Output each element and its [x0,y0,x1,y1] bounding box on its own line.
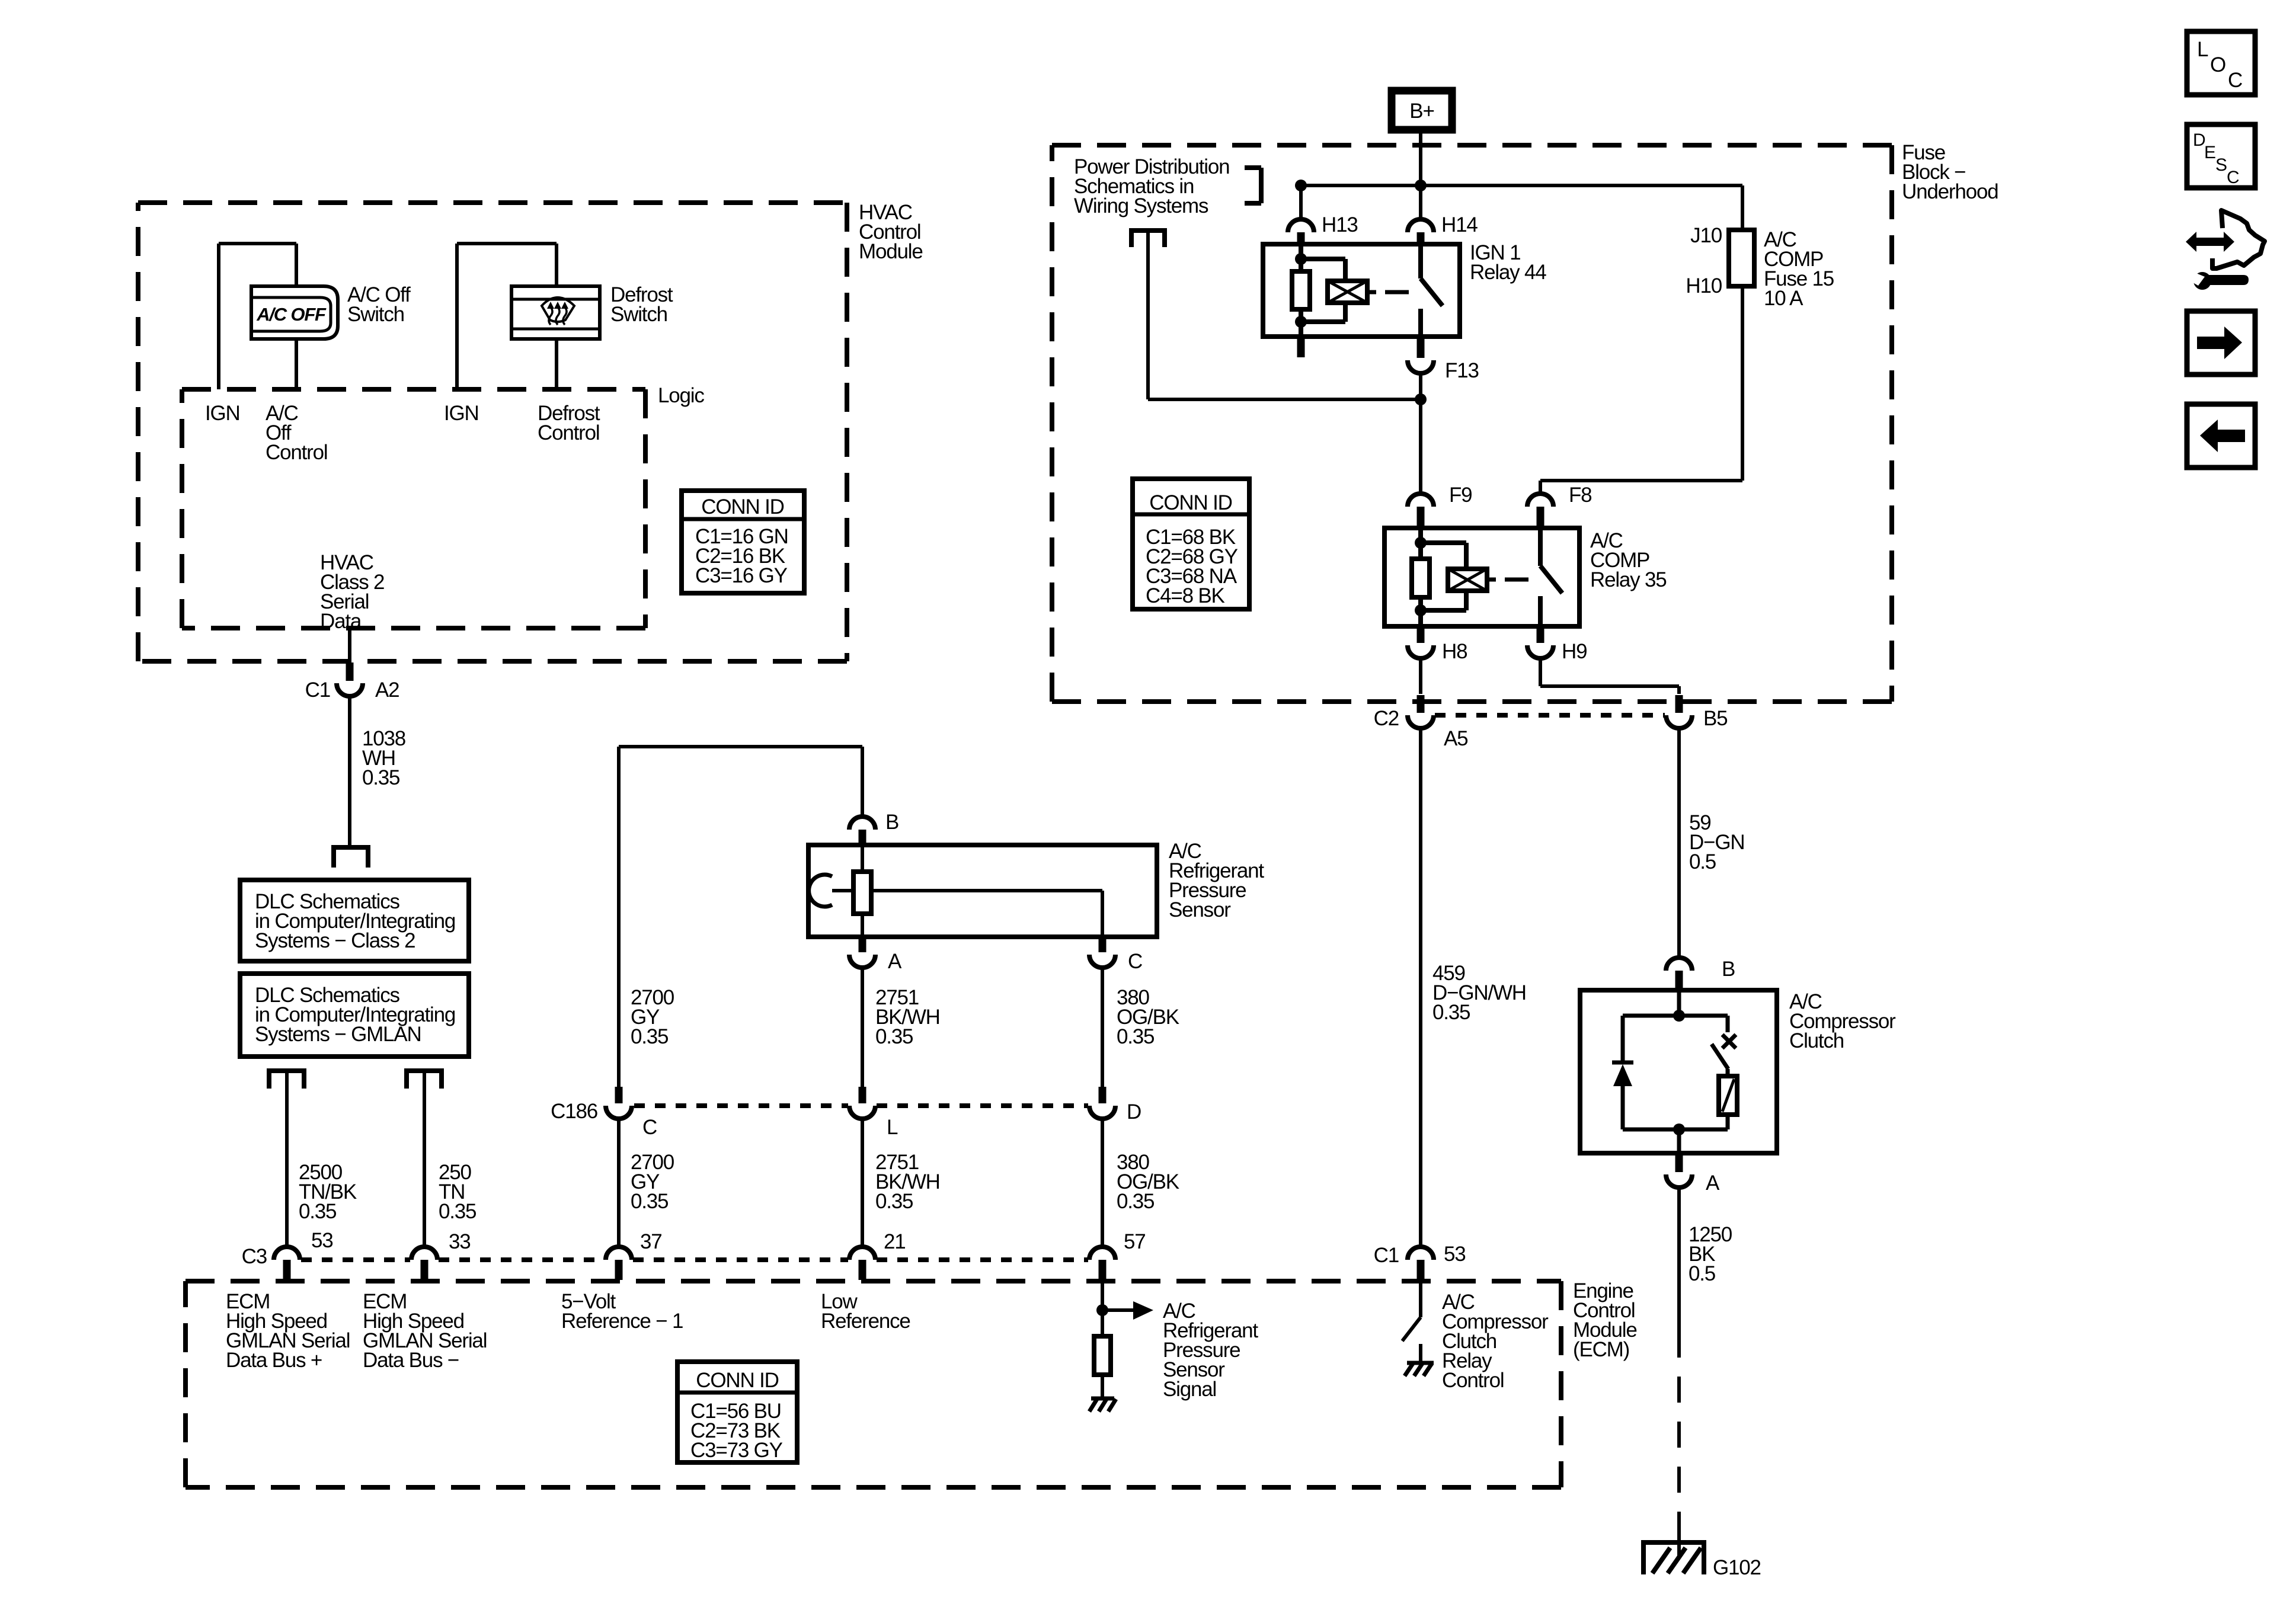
connector pin D [1089,1087,1141,1124]
wire fuse to F8 [1540,286,1742,494]
svg-text:A: A [888,950,902,973]
svg-text:33: 33 [449,1230,471,1253]
relay A/C COMP Relay 35 box [1384,528,1579,626]
wire F13 to F9 [1419,373,1422,494]
ECM box [186,1281,1561,1487]
wire 380 OG/BK lower [1101,1119,1104,1247]
wire HVAC Class 2 serial data [348,628,351,661]
wire 2751 BK/WH lower [861,1119,864,1247]
svg-text:H9: H9 [1562,640,1587,663]
relay44 switch pin to F13 [1417,337,1425,358]
svg-text:F9: F9 [1449,484,1472,507]
bracket power distribution wire [1129,231,1167,247]
A/C Refrigerant Pressure Sensor box [808,845,1157,937]
CONN ID table (fuse block) [1133,479,1249,609]
relay44 coil branch [1292,247,1376,337]
svg-text:S: S [2215,155,2227,175]
svg-text:CONN ID: CONN ID [696,1369,778,1392]
junction B+ bus main [1415,180,1427,191]
svg-text:F13: F13 [1445,359,1479,382]
DLC Schematics box (Class 2) [240,880,469,961]
icon schematic reference (arrow and wrench) [2186,210,2265,290]
switch Defrost Switch [511,286,600,339]
svg-text:H13: H13 [1322,213,1358,236]
svg-text:C: C [2227,168,2239,187]
off-page bracket to DLC [331,847,370,868]
thermal switch and thermistor (clutch) [1712,1016,1737,1129]
svg-text:53: 53 [311,1229,333,1252]
wire sensor signal inside ECM [1101,1280,1104,1336]
svg-text:B: B [885,811,898,834]
svg-text:C: C [1128,950,1142,973]
svg-text:C1=68 BKC2=68 GYC3=68 NAC4=8 B: C1=68 BKC2=68 GYC3=68 NAC4=8 BK [1146,526,1238,607]
svg-text:Logic: Logic [658,384,704,407]
svg-text:H14: H14 [1441,213,1478,236]
junction B+ bus left [1295,180,1307,191]
DLC Schematics box (GMLAN) [240,974,469,1057]
C186 connector row dotted line [634,1103,1088,1108]
relay IGN 1 Relay 44 box [1263,244,1460,337]
connector C3 pin 53 [242,1229,333,1280]
connector C1/A2 [305,662,399,702]
wire to ground [1101,1375,1104,1398]
connector C2 pin A5 [1374,695,1468,750]
wire IGN to Defrost switch [457,244,557,389]
svg-text:H8: H8 [1442,640,1467,663]
fuse A/C COMP Fuse 15 10A [1686,185,1754,297]
svg-text:53: 53 [1444,1243,1466,1266]
wire 2500 TN/BK [285,1073,289,1247]
connector B5 [1666,695,1727,730]
connector pin 37 [606,1230,662,1280]
svg-text:21: 21 [884,1230,906,1253]
connector C1 pin 53 [1374,1243,1466,1280]
icon LOC button [2187,31,2255,95]
relay44 coil pin stub [1297,337,1305,357]
svg-text:E: E [2204,143,2215,162]
icon previous arrow button [2187,404,2255,468]
svg-text:C3: C3 [242,1245,267,1268]
connector H9 [1527,626,1587,663]
wire H8 to C2 [1419,658,1422,694]
relay35 coil-switch link [1505,578,1528,582]
svg-text:IGN: IGN [444,402,479,425]
relay44 switch [1421,244,1443,337]
connector B (clutch) [1666,958,1735,990]
svg-text:G102: G102 [1713,1556,1761,1579]
wire to sensor B [861,747,864,817]
icon next arrow button [2187,311,2255,375]
connector pin A [849,937,902,973]
wire 59 D-GN [1677,728,1681,958]
svg-text:L: L [2197,38,2208,61]
relay44 coil-switch link [1385,290,1409,295]
svg-text:C: C [2228,69,2242,92]
wire H9 to B5 [1540,658,1679,694]
svg-text:J10: J10 [1690,224,1722,247]
icon DESC button [2187,124,2255,188]
wire 1038 [348,696,351,847]
ground G102 [1641,1532,1706,1574]
svg-text:C1: C1 [1374,1244,1399,1267]
svg-text:DefrostSwitch: DefrostSwitch [610,283,673,326]
connector C186 pin C [551,1087,657,1139]
CONN ID table (HVAC) [682,491,804,593]
wire 1250 BK dashed to ground [1677,1331,1681,1538]
A/C compressor clutch relay control switch [1402,1280,1421,1363]
wire B+ feed [1419,130,1422,219]
svg-text:B+: B+ [1409,100,1434,123]
wire to H13 [1299,185,1303,219]
svg-text:D: D [2193,130,2205,150]
wire power distribution feed [1148,233,1421,399]
junction F13/power dist [1415,393,1427,405]
connector H13 [1288,213,1358,247]
junction sensor signal [1096,1304,1108,1316]
wire Defrost Control [555,338,558,389]
wire 250 TN [423,1073,426,1247]
svg-text:C1=56 BUC2=73 BKC3=73 GY: C1=56 BUC2=73 BKC3=73 GY [690,1400,783,1462]
wire 2751 upper [861,968,864,1087]
relay35 coil branch [1412,528,1496,626]
ECM connector row dotted line [301,1257,1088,1262]
wire 5V ref top run [619,747,862,1087]
svg-text:C: C [642,1116,657,1139]
Fuse Block - Underhood box [1052,145,1892,702]
connector pin C [1089,937,1142,973]
connector pin 33 [411,1230,471,1280]
svg-text:F8: F8 [1569,484,1591,507]
connector pin B [849,811,898,846]
connector F9 [1408,484,1472,526]
svg-text:57: 57 [1124,1230,1146,1253]
relay35 switch [1540,528,1562,626]
wire 380 upper [1101,968,1104,1087]
ground (relay control) [1405,1363,1434,1376]
svg-text:37: 37 [640,1230,662,1253]
connector A (clutch) [1666,1153,1720,1195]
svg-text:A: A [1706,1172,1720,1195]
wire 2700 GY lower [617,1119,621,1247]
clutch internal wiring [1623,990,1728,1153]
bracket below DLC (bus -) [404,1071,444,1089]
svg-text:C2: C2 [1374,707,1399,730]
svg-text:B: B [1722,958,1735,981]
wire 1250 BK solid [1677,1188,1681,1331]
connector pin 57 [1089,1230,1146,1280]
wire IGN to A/C Off switch [219,244,296,389]
svg-text:H10: H10 [1686,274,1722,297]
switch A/C Off Switch [251,286,338,339]
pressure transducer [809,846,1102,937]
svg-text:A5: A5 [1444,727,1467,750]
connector H14 [1408,213,1478,247]
svg-text:C1: C1 [305,678,330,702]
svg-text:EngineControlModule(ECM): EngineControlModule(ECM) [1573,1279,1637,1361]
svg-text:IGN: IGN [205,402,240,425]
svg-text:C186: C186 [551,1100,597,1123]
arrow A/C Refrigerant Pressure Sensor Signal [1102,1301,1153,1320]
svg-text:C1=16 GNC2=16 BKC3=16 GY: C1=16 GNC2=16 BKC3=16 GY [695,525,788,587]
svg-text:CONN ID: CONN ID [701,495,784,518]
connector H8 [1408,626,1467,663]
resistor (signal pull) [1094,1336,1111,1375]
bracket power distribution ref [1245,168,1261,203]
svg-text:A/C OFF: A/C OFF [256,304,327,325]
svg-text:DefrostControl: DefrostControl [538,402,600,444]
svg-text:A2: A2 [375,678,399,702]
C2/B5 connector row dotted line [1435,713,1665,718]
connector pin L [849,1087,898,1139]
connector F13 [1408,359,1479,382]
connector pin 21 [849,1230,906,1280]
HVAC Control Module box [138,203,847,661]
CONN ID table (ECM) [677,1362,797,1462]
A/C Compressor Clutch box [1580,990,1777,1153]
svg-text:B5: B5 [1703,707,1727,730]
svg-text:D: D [1127,1100,1141,1124]
svg-text:A/C OffSwitch: A/C OffSwitch [347,283,411,326]
node B+ [1392,91,1452,130]
diode (clutch) [1612,1016,1633,1129]
bracket below DLC (bus +) [267,1071,306,1089]
svg-text:L: L [887,1116,898,1139]
wire 459 D-GN/WH [1419,728,1422,1247]
wire A/C Off Control [295,338,298,389]
Logic box [182,389,645,628]
svg-text:CONN ID: CONN ID [1149,491,1232,514]
connector F8 [1527,484,1591,526]
ground (signal) [1089,1398,1116,1411]
wire B+ bus [1301,184,1742,187]
svg-text:O: O [2210,53,2225,76]
